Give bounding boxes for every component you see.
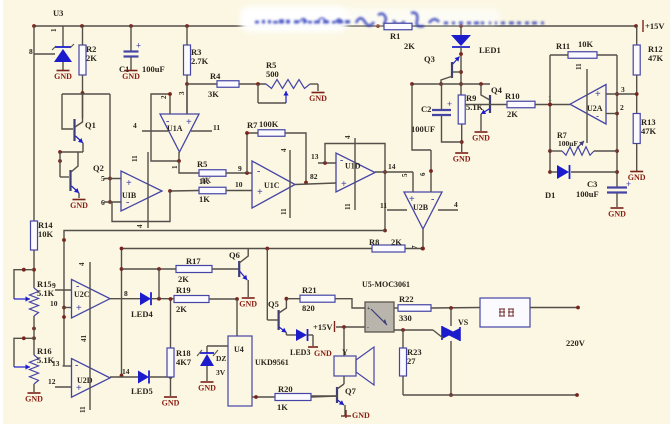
svg-text:+: + [447, 99, 452, 109]
svg-text:U2A: U2A [587, 104, 603, 113]
svg-text:-: - [257, 166, 260, 177]
svg-text:R21: R21 [302, 285, 317, 295]
svg-text:U4: U4 [234, 345, 244, 354]
svg-text:GND: GND [25, 395, 43, 404]
svg-text:2: 2 [160, 95, 168, 99]
svg-text:R11: R11 [556, 41, 570, 51]
svg-text:500: 500 [266, 69, 279, 79]
svg-text:5.1K: 5.1K [466, 102, 484, 112]
svg-text:13: 13 [52, 359, 60, 368]
svg-text:VS: VS [458, 318, 469, 327]
svg-text:+: + [409, 194, 415, 205]
svg-text:9: 9 [238, 164, 242, 173]
svg-text:10: 10 [50, 299, 58, 308]
svg-text:+: + [136, 41, 141, 51]
svg-text:10K: 10K [38, 229, 54, 239]
svg-text:4: 4 [280, 148, 288, 152]
svg-text:11: 11 [213, 123, 220, 132]
svg-text:Q6: Q6 [229, 250, 240, 260]
svg-text:4K7: 4K7 [176, 357, 192, 367]
svg-text:Q3: Q3 [424, 54, 435, 64]
svg-text:+: + [257, 187, 263, 198]
svg-text:-: - [596, 111, 599, 121]
svg-text:100uF: 100uF [558, 139, 578, 148]
svg-text:U3: U3 [53, 8, 63, 18]
svg-text:-: - [367, 325, 369, 331]
svg-text:100uF: 100uF [142, 64, 165, 74]
svg-text:3: 3 [621, 85, 625, 94]
svg-text:27: 27 [407, 356, 416, 366]
svg-text:R20: R20 [278, 384, 293, 394]
svg-text:8: 8 [29, 47, 33, 56]
svg-text:GND: GND [314, 349, 332, 358]
svg-text:82: 82 [310, 172, 318, 181]
svg-text:GND: GND [453, 155, 471, 164]
svg-text:3K: 3K [208, 89, 219, 99]
svg-text:GND: GND [70, 201, 88, 210]
svg-text:2K: 2K [176, 304, 187, 314]
svg-text:11: 11 [280, 208, 288, 215]
svg-text:11: 11 [79, 406, 87, 413]
svg-text:GND: GND [608, 210, 626, 219]
svg-text:Q7: Q7 [345, 386, 357, 396]
svg-text:6: 6 [419, 172, 427, 176]
svg-text:Q5: Q5 [268, 299, 279, 309]
svg-text:U2B: U2B [413, 203, 429, 212]
svg-text:4: 4 [344, 135, 352, 139]
svg-text:4: 4 [454, 200, 458, 209]
svg-text:R17: R17 [186, 256, 201, 266]
svg-text:GND: GND [239, 300, 257, 309]
svg-text:+: + [341, 179, 347, 190]
svg-text:UIB: UIB [122, 191, 137, 200]
svg-text:R1: R1 [390, 31, 400, 41]
svg-text:-: - [166, 116, 169, 127]
svg-text:1K: 1K [277, 402, 288, 412]
svg-text:2.7K: 2.7K [191, 56, 209, 66]
svg-text:+: + [126, 178, 132, 189]
svg-text:11: 11 [344, 203, 352, 210]
svg-text:4: 4 [78, 262, 86, 266]
svg-text:GND: GND [352, 411, 370, 420]
svg-text:5: 5 [101, 174, 105, 183]
svg-text:LED1: LED1 [479, 45, 501, 55]
svg-text:2K: 2K [507, 109, 518, 119]
svg-text:+: + [186, 117, 192, 128]
svg-text:2K: 2K [86, 53, 97, 63]
svg-text:-: - [340, 155, 343, 166]
svg-text:10K: 10K [578, 39, 594, 49]
svg-text:1: 1 [50, 28, 58, 32]
svg-text:13: 13 [311, 152, 319, 161]
svg-text:3V: 3V [216, 368, 226, 377]
svg-text:1K: 1K [199, 194, 210, 204]
svg-text:9: 9 [52, 281, 56, 290]
svg-text:UKD9561: UKD9561 [255, 358, 289, 367]
svg-text:100uF: 100uF [576, 189, 599, 199]
svg-text:-: - [76, 281, 79, 292]
svg-text:C3: C3 [587, 179, 597, 189]
svg-text:Q2: Q2 [93, 163, 104, 173]
svg-text:47K: 47K [648, 53, 664, 63]
svg-text:+: + [595, 89, 601, 100]
svg-text:U5-MOC3061: U5-MOC3061 [362, 280, 410, 289]
svg-text:2K: 2K [178, 274, 189, 284]
svg-text:Q4: Q4 [491, 85, 503, 95]
svg-text:11: 11 [575, 63, 583, 70]
svg-text:GND: GND [472, 134, 490, 143]
svg-text:1: 1 [171, 165, 179, 169]
svg-text:U1A: U1A [167, 124, 183, 133]
svg-text:LED4: LED4 [131, 309, 153, 319]
svg-text:+: + [626, 179, 631, 189]
svg-text:3: 3 [178, 91, 186, 95]
svg-text:-: - [126, 197, 129, 208]
svg-text:+15V: +15V [645, 21, 665, 31]
svg-text:U1C: U1C [264, 181, 280, 190]
svg-text:1K: 1K [201, 176, 212, 185]
svg-text:8: 8 [124, 289, 128, 298]
svg-text:14: 14 [122, 367, 130, 376]
svg-text:220V: 220V [566, 338, 586, 348]
svg-text:2K: 2K [404, 41, 415, 51]
svg-text:Q1: Q1 [85, 120, 96, 130]
svg-text:LED5: LED5 [131, 386, 153, 396]
svg-text:-: - [75, 360, 78, 371]
svg-text:R4: R4 [210, 71, 221, 81]
svg-text:-: - [431, 194, 434, 205]
svg-text:12: 12 [48, 377, 56, 386]
svg-text:820: 820 [302, 303, 315, 313]
svg-text:R5: R5 [197, 159, 207, 169]
svg-text:R8: R8 [369, 237, 379, 247]
svg-text:C2: C2 [421, 104, 431, 114]
svg-text:GND: GND [54, 72, 72, 81]
svg-text:+: + [367, 306, 371, 312]
svg-text:+: + [76, 383, 82, 394]
svg-text:47K: 47K [641, 126, 657, 136]
svg-text:LED3: LED3 [290, 348, 310, 357]
svg-text:GND: GND [122, 72, 140, 81]
svg-text:11: 11 [131, 155, 139, 162]
svg-text:5: 5 [401, 173, 409, 177]
svg-text:4: 4 [133, 121, 137, 130]
svg-text:R22: R22 [399, 294, 414, 304]
svg-text:330: 330 [399, 313, 412, 323]
svg-text:R7: R7 [247, 120, 258, 130]
svg-text:6: 6 [101, 198, 105, 207]
svg-text:GND: GND [309, 94, 327, 103]
svg-text:DZ: DZ [216, 354, 226, 363]
svg-text:D1: D1 [545, 190, 555, 200]
svg-text:GND: GND [162, 399, 180, 408]
svg-text:10: 10 [235, 180, 243, 189]
svg-text:GND: GND [198, 384, 216, 393]
svg-text:100K: 100K [259, 119, 279, 129]
svg-text:11: 11 [380, 201, 387, 210]
svg-text:2K: 2K [391, 237, 402, 247]
svg-text:U1D: U1D [345, 162, 361, 171]
svg-text:4: 4 [136, 224, 144, 228]
svg-text:41: 41 [80, 335, 88, 343]
svg-text:14: 14 [388, 162, 396, 171]
svg-text:+15V: +15V [313, 322, 333, 332]
svg-text:+: + [76, 303, 82, 314]
svg-text:2: 2 [620, 103, 624, 112]
svg-text:100UF: 100UF [411, 124, 435, 134]
svg-text:R19: R19 [176, 285, 191, 295]
svg-text:R10: R10 [505, 91, 520, 101]
